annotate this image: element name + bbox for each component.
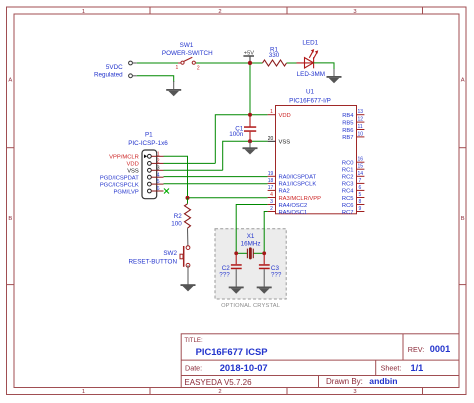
svg-text:VSS: VSS (279, 140, 291, 146)
title block text (184, 337, 450, 387)
svg-text:RESET-BUTTON: RESET-BUTTON (128, 258, 177, 265)
svg-text:2: 2 (270, 206, 273, 212)
svg-text:13: 13 (358, 109, 364, 115)
capacitor C3 top lead (263, 253, 265, 264)
svg-text:Sheet:: Sheet: (381, 364, 402, 373)
capacitor C2 plates (231, 264, 242, 269)
svg-text:X1: X1 (247, 233, 255, 240)
svg-text:RC7: RC7 (342, 210, 354, 216)
svg-text:RC3: RC3 (342, 182, 354, 188)
svg-text:REV:: REV: (408, 345, 425, 354)
svg-text:RB5: RB5 (342, 120, 353, 126)
svg-text:9: 9 (359, 206, 362, 212)
svg-text:6: 6 (157, 186, 160, 192)
capacitor C2 top lead (235, 253, 237, 264)
optional crystal dashed box (215, 229, 286, 299)
svg-text:RA1/ICSPCLK: RA1/ICSPCLK (279, 182, 317, 188)
svg-text:8: 8 (359, 199, 362, 205)
label SW2 RESET-BUTTON (128, 250, 177, 265)
svg-text:0001: 0001 (430, 344, 450, 354)
svg-text:3: 3 (270, 199, 273, 205)
resistor R1 leads (250, 62, 263, 64)
svg-text:RA3/MCLR/VPP: RA3/MCLR/VPP (279, 196, 322, 202)
label 5VDC Regulated (94, 64, 123, 78)
wire P1.4 to RA0/ICSPDAT (164, 176, 268, 178)
resistor R2 (185, 204, 191, 228)
svg-text:PIC16F677-I/P: PIC16F677-I/P (289, 97, 331, 104)
svg-text:RC4: RC4 (342, 189, 354, 195)
label C3 ??? (271, 265, 282, 278)
svg-text:3: 3 (353, 389, 356, 395)
capacitor C1 top lead (249, 115, 251, 127)
label X1 16MHz (241, 233, 261, 248)
svg-text:3: 3 (353, 9, 356, 15)
svg-text:RC1: RC1 (342, 168, 354, 174)
svg-text:Date:: Date: (185, 364, 202, 373)
svg-text:17: 17 (268, 185, 274, 191)
svg-text:5: 5 (359, 192, 362, 198)
svg-text:B: B (461, 216, 465, 222)
svg-text:PGC/ICSPCLK: PGC/ICSPCLK (100, 182, 139, 188)
wire crystal left (236, 252, 247, 254)
wire VSS rail (223, 141, 268, 170)
wire 5VDC pin2 to ground (137, 76, 174, 82)
ground (C3) (257, 287, 272, 294)
svg-text:14: 14 (358, 171, 364, 177)
svg-text:Regulated: Regulated (94, 72, 123, 79)
svg-text:1: 1 (157, 151, 160, 157)
title block (181, 334, 459, 388)
svg-text:20: 20 (268, 136, 274, 142)
svg-text:VPP/MCLR: VPP/MCLR (109, 155, 139, 161)
label R2 100 (171, 213, 182, 227)
wire VDD rail (215, 115, 267, 164)
wire 5VDC to SW1 (137, 62, 181, 64)
junction VDD/C1 (248, 113, 252, 117)
svg-text:100: 100 (171, 221, 182, 228)
net flag +5V (243, 51, 254, 63)
svg-text:7: 7 (359, 178, 362, 184)
svg-text:3: 3 (157, 165, 160, 171)
svg-text:B: B (8, 216, 12, 222)
svg-text:OPTIONAL CRYSTAL: OPTIONAL CRYSTAL (221, 303, 280, 309)
wire RA4/OSC2 to crystal (236, 205, 267, 254)
U1 VSS pin stub (268, 140, 276, 142)
svg-text:A: A (461, 78, 465, 84)
svg-text:VDD: VDD (279, 113, 291, 119)
svg-text:18: 18 (268, 178, 274, 184)
ground lead (C2) (235, 269, 237, 287)
svg-text:1/1: 1/1 (411, 363, 424, 373)
connector J 5VDC pin circles (129, 61, 133, 78)
junction crystal left (234, 251, 238, 255)
svg-text:A: A (8, 78, 12, 84)
wire VPP from P1.1 to node (164, 156, 188, 198)
svg-text:EASYEDA V5.7.26: EASYEDA V5.7.26 (184, 378, 252, 387)
svg-text:Drawn By:: Drawn By: (326, 377, 363, 386)
svg-text:19: 19 (268, 171, 274, 177)
svg-text:PGM/LVP: PGM/LVP (113, 189, 138, 195)
svg-text:POWER-SWITCH: POWER-SWITCH (162, 50, 213, 57)
ground lead (SW1 branch) (173, 81, 175, 89)
U1 left pin names (279, 113, 322, 216)
svg-text:RA4/OSC2: RA4/OSC2 (279, 203, 308, 209)
svg-text:100n: 100n (229, 131, 244, 138)
svg-text:12: 12 (358, 117, 364, 123)
capacitor C3 plates (259, 264, 270, 269)
svg-text:5: 5 (157, 179, 160, 185)
svg-text:RB6: RB6 (342, 128, 353, 134)
svg-text:4: 4 (270, 192, 273, 198)
svg-text:P1: P1 (145, 131, 153, 138)
svg-text:RA2: RA2 (279, 189, 290, 195)
svg-text:VSS: VSS (127, 169, 139, 175)
U1 left pin stubs (268, 115, 276, 212)
ground lead (LED) (333, 69, 335, 76)
svg-text:LED1: LED1 (302, 39, 318, 46)
svg-text:???: ??? (219, 271, 230, 278)
label C1 100n (229, 125, 244, 137)
junction VPP/R2 (186, 196, 190, 200)
svg-text:RC0: RC0 (342, 161, 354, 167)
label C2 ??? (219, 265, 230, 278)
svg-text:VDD: VDD (127, 162, 139, 168)
svg-text:RC6: RC6 (342, 203, 354, 209)
label R1 330 (269, 47, 280, 59)
wire P1.3 to VSS rail (164, 169, 223, 171)
wire node to RA3/MCLR/VPP (188, 197, 268, 199)
label SW1 POWER-SWITCH (162, 42, 213, 57)
svg-text:1: 1 (270, 109, 273, 115)
wire RA5/OSC1 to crystal (264, 212, 267, 254)
LED D1 symbol (297, 51, 318, 69)
ground (under power switch branch) (166, 89, 181, 96)
svg-text:11: 11 (358, 124, 363, 130)
ground lead (C1) (249, 141, 251, 147)
U1 right pin numbers (358, 109, 364, 212)
svg-text:SW2: SW2 (163, 250, 177, 257)
svg-text:330: 330 (269, 52, 280, 59)
svg-text:2: 2 (218, 9, 221, 15)
svg-text:RC5: RC5 (342, 196, 354, 202)
svg-text:LED-3MM: LED-3MM (297, 71, 325, 78)
svg-text:RA5/OSC1: RA5/OSC1 (279, 210, 308, 216)
svg-text:4: 4 (157, 172, 160, 178)
svg-text:SW1: SW1 (180, 42, 194, 49)
svg-text:PGD/ICSPDAT: PGD/ICSPDAT (100, 176, 139, 182)
ground (C2) (229, 287, 244, 294)
wire crystal right (253, 252, 264, 254)
junction crystal right (262, 251, 266, 255)
svg-text:10: 10 (358, 131, 364, 137)
svg-text:RC2: RC2 (342, 175, 354, 181)
svg-text:5VDC: 5VDC (106, 64, 123, 71)
resistor R2 top lead (187, 198, 189, 204)
P1 pin circles (148, 154, 152, 193)
svg-text:PIC16F677 ICSP: PIC16F677 ICSP (196, 346, 268, 357)
ground (LED) (327, 76, 342, 83)
svg-text:R2: R2 (174, 213, 183, 220)
U1 right pin names (342, 113, 354, 216)
wire LED cathode to ground (314, 63, 334, 70)
resistor R1 (263, 60, 287, 66)
connector P1 body (142, 150, 157, 199)
svg-text:PIC-ICSP-1x6: PIC-ICSP-1x6 (128, 140, 168, 147)
svg-text:2: 2 (197, 66, 200, 72)
svg-text:TITLE:: TITLE: (184, 337, 203, 344)
svg-text:15: 15 (358, 164, 364, 170)
wire +5V down to VDD rail (249, 63, 251, 115)
ground (C1) (243, 147, 258, 154)
svg-text:RB4: RB4 (342, 113, 354, 119)
wire P1.2 to VDD rail (164, 162, 216, 164)
svg-text:RA0/ICSPDAT: RA0/ICSPDAT (279, 175, 317, 181)
svg-text:+5V: +5V (244, 51, 254, 57)
P1 pin stubs (151, 156, 163, 191)
svg-text:2: 2 (218, 389, 221, 395)
P1 pin1 marker (144, 155, 147, 159)
ground lead (C3) (263, 269, 265, 287)
crystal X1 (247, 247, 253, 259)
svg-text:1: 1 (82, 389, 85, 395)
wire SW1 to +5V node (196, 62, 250, 64)
svg-text:2: 2 (157, 159, 160, 165)
svg-text:16MHz: 16MHz (241, 241, 261, 248)
svg-text:RB7: RB7 (342, 135, 353, 141)
wire P1.5 to RA1/ICSPCLK (164, 183, 268, 185)
P1 pin labels (100, 155, 139, 196)
LED arrowheads (311, 49, 318, 54)
svg-text:???: ??? (271, 271, 282, 278)
svg-text:1: 1 (82, 9, 85, 15)
svg-text:6: 6 (359, 185, 362, 191)
U1 right pin stubs (357, 115, 365, 212)
capacitor C1 bottom lead (249, 132, 251, 141)
connector 5VDC stubs (132, 63, 136, 76)
svg-text:16: 16 (358, 157, 364, 163)
ground (SW2) (181, 284, 196, 291)
svg-text:2018-10-07: 2018-10-07 (220, 362, 268, 373)
junction VSS/C1 (248, 139, 252, 143)
svg-text:1: 1 (176, 65, 179, 71)
svg-text:U1: U1 (306, 89, 315, 96)
junction node +5V (248, 61, 252, 65)
svg-text:andbin: andbin (369, 376, 397, 386)
lead SW2 to ground (187, 265, 189, 284)
P1 pin numbers (157, 151, 160, 192)
IC U1 body (276, 106, 357, 214)
lead R2 to SW2 (187, 228, 189, 246)
switch SW1 (176, 57, 200, 71)
switch SW2 reset button (180, 246, 190, 267)
no-connect X on P1.6 (164, 189, 169, 194)
capacitor C1 plates (244, 126, 256, 132)
